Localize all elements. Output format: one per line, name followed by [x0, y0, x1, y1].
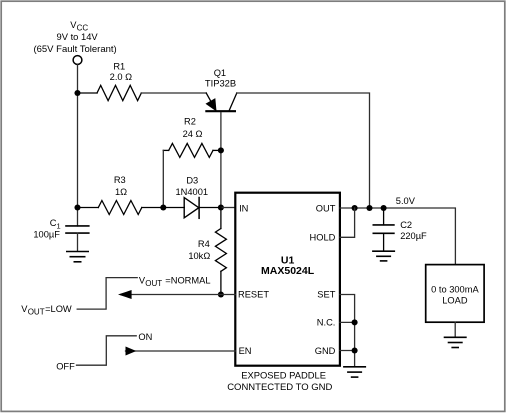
wire OUT line to load — [340, 208, 456, 265]
node junction GND — [352, 347, 358, 353]
VCC terminal — [73, 56, 82, 65]
svg-text:10kΩ: 10kΩ — [188, 251, 210, 261]
wire GND stub — [340, 350, 355, 352]
ground C2 — [373, 251, 394, 261]
node junction base/R2 — [218, 147, 224, 153]
svg-text:220µF: 220µF — [400, 231, 427, 241]
label U1 MAX5024L — [261, 255, 315, 278]
svg-text:CONNTECTED TO GND: CONNTECTED TO GND — [227, 382, 332, 393]
capacitor C1 — [66, 226, 89, 233]
wire IN stub — [221, 207, 235, 209]
node junction NC — [352, 319, 358, 325]
label VOUT=NORMAL — [139, 275, 211, 287]
load box 0 to 300mA — [426, 265, 484, 323]
wire NC stub — [340, 321, 355, 323]
resistor R4 — [215, 208, 226, 295]
label D3 1N4001 — [176, 175, 209, 197]
svg-text:2.0 Ω: 2.0 Ω — [110, 72, 133, 82]
label R4 10kohm — [188, 239, 210, 261]
wire C1 to ground — [77, 233, 79, 251]
node junction VCC/R3/C1 — [74, 204, 80, 210]
ground U1 GND — [344, 367, 365, 377]
svg-text:D3: D3 — [186, 175, 198, 185]
wire SET/NC/GND column — [340, 295, 355, 367]
svg-text:0 to 300mA: 0 to 300mA — [431, 284, 479, 294]
svg-text:=LOW: =LOW — [45, 304, 72, 314]
label VOUT=LOW — [21, 304, 72, 316]
wire load to ground — [454, 322, 456, 337]
resistor R3 — [80, 201, 163, 215]
svg-text:1N4001: 1N4001 — [176, 187, 209, 197]
svg-text:RESET: RESET — [238, 289, 269, 299]
svg-text:IN: IN — [239, 203, 248, 213]
svg-text:OUT: OUT — [28, 308, 45, 317]
waveform step off-to-on — [77, 336, 137, 365]
node junction OUT/HOLD — [352, 205, 358, 211]
svg-text:OUT: OUT — [145, 279, 162, 288]
node junction OUT/collector — [366, 205, 372, 211]
svg-text:=NORMAL: =NORMAL — [165, 275, 210, 285]
node junction VCC/R1 — [74, 90, 80, 96]
svg-text:HOLD: HOLD — [310, 233, 336, 243]
ground load — [445, 337, 466, 347]
svg-text:100µF: 100µF — [33, 229, 60, 239]
resistor R2 — [163, 143, 221, 157]
svg-text:LOAD: LOAD — [442, 296, 468, 306]
waveform step normal-to-low — [77, 278, 137, 310]
svg-text:24 Ω: 24 Ω — [183, 129, 203, 139]
wire R2 left leg down to diode line — [162, 150, 164, 207]
svg-text:GND: GND — [315, 346, 336, 356]
label load — [431, 284, 479, 305]
label exposed paddle note — [227, 369, 332, 393]
label R1 2.0ohm — [110, 61, 133, 82]
wire Q1 collector to right column — [237, 93, 370, 208]
node junction OUT/C2 — [381, 205, 387, 211]
svg-text:1Ω: 1Ω — [115, 187, 127, 197]
transistor Q1 — [206, 93, 237, 111]
svg-text:(65V Fault Tolerant): (65V Fault Tolerant) — [33, 44, 116, 55]
svg-text:ON: ON — [138, 332, 152, 342]
svg-text:5.0V: 5.0V — [396, 196, 416, 206]
label C1 100uF — [33, 218, 60, 239]
op-amp U1 box MAX5024L — [235, 193, 340, 366]
wire EN line — [126, 350, 236, 352]
arrow EN right — [126, 347, 137, 356]
svg-text:Q1: Q1 — [214, 68, 226, 78]
label R2 24ohm — [183, 117, 203, 139]
svg-text:R3: R3 — [114, 175, 126, 185]
svg-text:OFF: OFF — [56, 362, 75, 372]
resistor R1 — [80, 85, 141, 100]
ground C1 — [67, 252, 88, 262]
svg-text:R2: R2 — [184, 117, 196, 127]
label C2 220uF — [400, 220, 427, 241]
diode D3 — [163, 198, 221, 219]
svg-text:TIP32B: TIP32B — [205, 78, 236, 89]
svg-text:EXPOSED PADDLE: EXPOSED PADDLE — [241, 369, 326, 380]
svg-text:SET: SET — [317, 289, 335, 299]
svg-text:C2: C2 — [400, 220, 412, 230]
wire HOLD link — [340, 208, 355, 237]
node junction base/IN/R4 — [218, 204, 224, 210]
wire Q1 base down — [220, 113, 222, 208]
wire VCC rail — [77, 65, 79, 227]
wire RESET line with arrow — [121, 294, 235, 296]
node VCC label — [33, 20, 116, 55]
svg-text:N.C.: N.C. — [317, 318, 336, 328]
svg-text:R1: R1 — [113, 61, 125, 71]
svg-text:EN: EN — [239, 346, 252, 356]
svg-text:9V to 14V: 9V to 14V — [57, 31, 99, 42]
svg-text:R4: R4 — [198, 239, 210, 249]
wire R1 to Q1 emitter — [141, 92, 206, 94]
capacitor C2 — [373, 208, 394, 251]
arrow RESET left — [118, 290, 132, 299]
node junction R3/D3/R2 — [160, 204, 166, 210]
node junction R4/RESET — [218, 291, 224, 297]
svg-text:MAX5024L: MAX5024L — [261, 265, 315, 277]
svg-text:OUT: OUT — [316, 203, 336, 213]
label R3 1ohm — [114, 175, 127, 197]
label Q1 TIP32B — [205, 68, 236, 89]
